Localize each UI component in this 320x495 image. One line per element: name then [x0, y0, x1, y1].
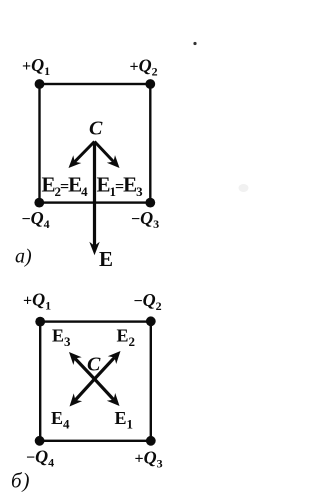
svg-text:б): б) — [11, 469, 31, 493]
svg-text:C: C — [87, 354, 101, 376]
svg-text:E: E — [99, 247, 112, 271]
svg-text:a): a) — [15, 246, 32, 268]
svg-text:C: C — [89, 118, 103, 140]
